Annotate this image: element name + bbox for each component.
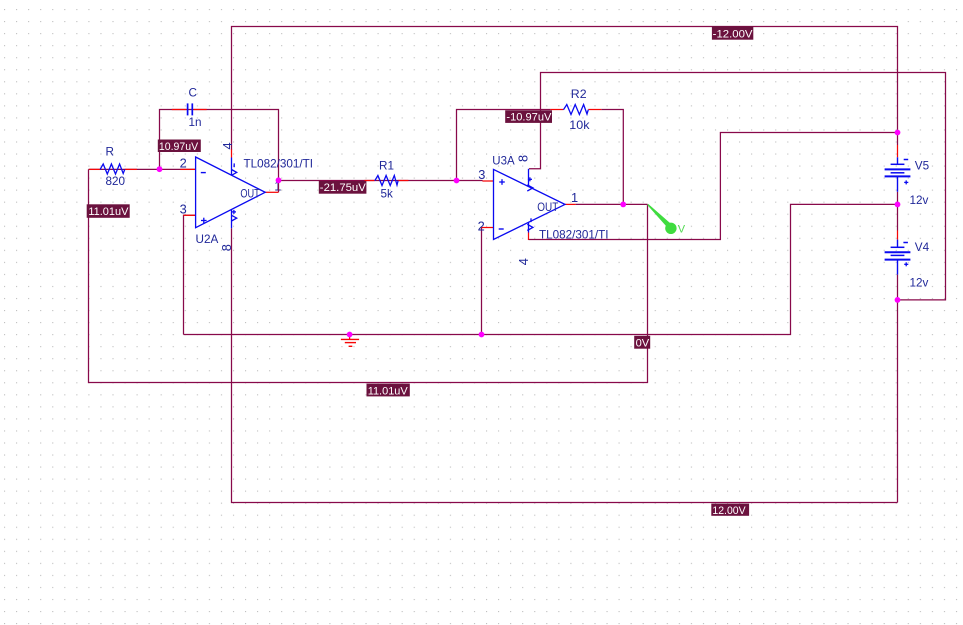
voltage label -21.75uV xyxy=(319,181,367,194)
junction node U2A output xyxy=(276,177,282,183)
svg-text:10k: 10k xyxy=(569,119,589,132)
junction node R1/R2/U3A pin3 xyxy=(454,178,460,184)
pin stub U3A pin2 xyxy=(482,227,494,229)
resistor R xyxy=(100,164,125,174)
battery V5 xyxy=(885,157,911,192)
voltage label -12.00V xyxy=(712,26,753,40)
pin stub U2A pin4 xyxy=(231,150,233,158)
svg-text:V4: V4 xyxy=(915,241,930,254)
svg-text:R2: R2 xyxy=(571,88,587,101)
U2A plus input mark xyxy=(201,218,207,224)
svg-text:3: 3 xyxy=(478,167,485,182)
wire 11.01uV net left/bottom xyxy=(89,169,648,382)
svg-text:OUT: OUT xyxy=(537,201,558,214)
svg-text:-10.97uV: -10.97uV xyxy=(506,112,552,124)
svg-text:2: 2 xyxy=(478,219,485,234)
svg-text:11.01uV: 11.01uV xyxy=(368,385,409,397)
svg-text:V: V xyxy=(678,224,686,236)
wire V4 bottom down xyxy=(897,275,899,503)
svg-text:-12.00V: -12.00V xyxy=(713,28,753,40)
ground xyxy=(341,339,359,346)
pin stub U2A pin2 xyxy=(180,168,195,170)
svg-text:0V: 0V xyxy=(636,338,650,350)
U2A minus input mark xyxy=(201,172,206,174)
svg-text:11.01uV: 11.01uV xyxy=(88,206,129,218)
svg-text:2: 2 xyxy=(180,156,187,171)
svg-text:TL082/301/TI: TL082/301/TI xyxy=(244,158,314,171)
svg-text:-21.75uV: -21.75uV xyxy=(320,182,367,194)
wire U3A pin2 down xyxy=(481,228,483,335)
voltage label 12.00V xyxy=(711,504,749,517)
svg-text:TL082/301/TI: TL082/301/TI xyxy=(539,229,609,242)
junction node ground pin xyxy=(347,332,353,338)
voltage label -10.97uV xyxy=(505,110,552,123)
voltage label 11.01uV left xyxy=(87,204,130,218)
U3A minus input mark xyxy=(499,228,504,230)
U2A V- power pin xyxy=(232,158,237,176)
pin stub C right xyxy=(193,109,206,111)
junction node V4 plus / +12V net xyxy=(895,297,901,303)
voltage label 10.97uV xyxy=(158,140,201,153)
svg-text:820: 820 xyxy=(106,175,126,188)
junction node C/R/U2A pin2 xyxy=(157,166,163,172)
wire V5 bottom to mid node xyxy=(897,192,899,231)
wire R2 right down to output xyxy=(601,110,623,205)
pin stub R2 left xyxy=(550,109,563,111)
resistor R2 xyxy=(564,105,589,115)
wire U3A output row xyxy=(576,203,648,205)
wire +12V from U3A pin8 xyxy=(529,73,946,300)
wire +12V bottom rail xyxy=(232,228,898,502)
pin stub C left xyxy=(172,109,187,111)
pin stub R right xyxy=(125,168,137,170)
pin stub R2 right xyxy=(588,109,601,111)
svg-text:12v: 12v xyxy=(910,194,929,207)
pin stub V4 top xyxy=(897,231,899,240)
pin stub U3A pin4 xyxy=(528,233,530,241)
U3A plus input mark xyxy=(499,179,505,185)
wire ground rail xyxy=(184,204,898,334)
op-amp U3A xyxy=(494,169,566,240)
junction node U3A output/R2 xyxy=(620,202,626,208)
svg-text:1: 1 xyxy=(571,190,578,205)
junction node V5 minus / -12V net xyxy=(895,130,901,136)
svg-text:8: 8 xyxy=(219,244,234,251)
pin stub V5 top xyxy=(897,145,899,157)
pin stub U3A out xyxy=(565,203,576,205)
svg-text:R1: R1 xyxy=(379,160,394,173)
wire -12V to U3A pin4 xyxy=(529,133,898,240)
svg-text:R: R xyxy=(106,146,114,159)
svg-text:1n: 1n xyxy=(189,116,202,129)
pin stub U2A pin3 xyxy=(184,214,196,216)
voltage probe V xyxy=(647,204,686,236)
wire -12V top rail xyxy=(232,27,898,151)
wire R input row xyxy=(89,168,196,170)
pin stub R left xyxy=(89,168,100,170)
U3A V+ power pin xyxy=(527,169,533,191)
U2A V+ power pin xyxy=(232,210,237,229)
wire R2 branch up xyxy=(457,110,551,181)
svg-text:5k: 5k xyxy=(381,188,394,201)
svg-text:V5: V5 xyxy=(915,160,930,173)
svg-text:U2A: U2A xyxy=(196,233,219,246)
battery V4 xyxy=(885,240,911,275)
svg-text:4: 4 xyxy=(220,142,235,149)
pin stub U2A out xyxy=(265,191,278,193)
svg-text:C: C xyxy=(189,87,197,100)
pin stub ground xyxy=(349,335,351,340)
pin stub R1 right xyxy=(398,180,408,182)
wire capacitor feedback net xyxy=(160,110,279,193)
svg-text:10.97uV: 10.97uV xyxy=(159,141,199,153)
svg-text:U3A: U3A xyxy=(492,155,514,168)
pin stub R1 left xyxy=(365,180,375,182)
svg-text:4: 4 xyxy=(516,258,531,265)
U3A V- power pin xyxy=(527,218,533,232)
voltage label 11.01uV bottom xyxy=(367,384,410,398)
capacitor C xyxy=(188,103,193,115)
wire U2A pin3 to ground rail xyxy=(184,215,196,334)
resistor R1 xyxy=(375,176,398,186)
junction node U3A pin2 / ground rail xyxy=(479,332,485,338)
op-amp U2A xyxy=(196,157,266,228)
junction node V5/V4 midpoint xyxy=(895,202,901,208)
svg-text:12v: 12v xyxy=(910,276,929,289)
wire R1 row xyxy=(279,180,483,182)
svg-text:OUT: OUT xyxy=(240,187,259,200)
svg-text:8: 8 xyxy=(516,155,531,162)
voltage label 0V xyxy=(634,336,650,350)
svg-text:3: 3 xyxy=(180,202,187,217)
pin stub U3A pin3 xyxy=(482,180,493,182)
svg-text:12.00V: 12.00V xyxy=(712,505,746,517)
